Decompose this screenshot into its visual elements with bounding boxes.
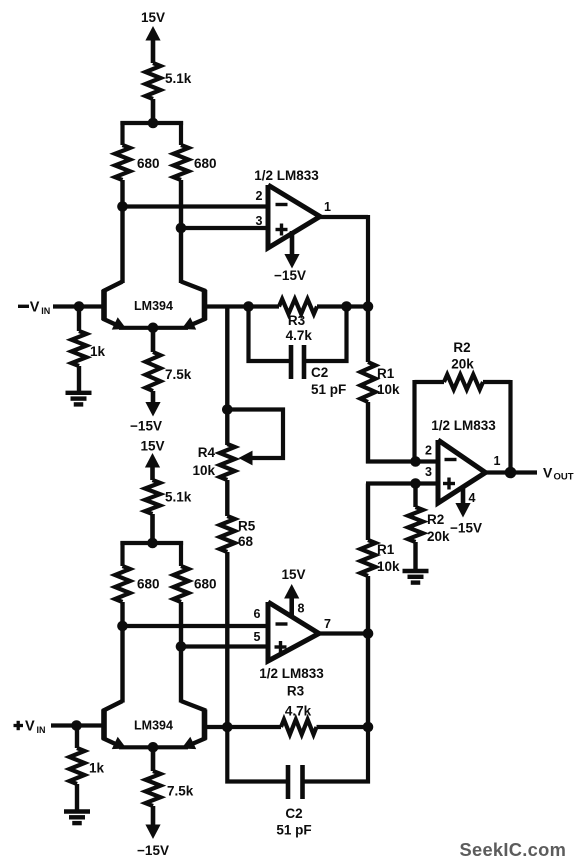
label 680 (top-right)	[194, 156, 217, 171]
transistor pair LM394 (bottom) bases	[104, 710, 205, 740]
svg-text:1: 1	[494, 454, 501, 468]
label R3 (bottom)	[287, 684, 305, 699]
LM394 bot right collector	[181, 701, 206, 711]
wire U2 output	[317, 631, 368, 635]
label 7.5k (bottom)	[167, 784, 194, 799]
wire C2 left branch (top)	[249, 307, 290, 362]
wire R5 to bottom base row	[225, 552, 229, 727]
label Vout	[543, 465, 574, 483]
power +15V arrow (U2 pin8)	[284, 584, 299, 599]
wire C2 left branch (bottom)	[227, 727, 286, 782]
resistor R2 (to ground)	[408, 484, 423, 571]
svg-text:R3: R3	[287, 684, 305, 699]
svg-text:680: 680	[194, 577, 217, 592]
label -15V (U3)	[450, 521, 482, 536]
pin 4 stem (U3)	[461, 486, 466, 506]
svg-text:5.1k: 5.1k	[165, 490, 192, 505]
wire +Vin input	[51, 723, 104, 727]
svg-text:10k: 10k	[377, 559, 400, 574]
power -15V arrow (top 7.5k)	[145, 402, 160, 417]
svg-text:C2: C2	[285, 806, 302, 821]
node: top rail junction	[148, 118, 159, 129]
node: C2 left tap (top)	[243, 301, 254, 312]
LM394 top right emitter	[182, 317, 207, 329]
pin 2 label (U1)	[256, 189, 263, 203]
pin 5 label (U2)	[254, 630, 261, 644]
node: C2 right tap (top)	[341, 301, 352, 312]
wire to U1 pin 3	[181, 226, 268, 230]
wire 5.1k-bottom to rail	[150, 514, 155, 545]
node: R4 bypass junction	[222, 404, 233, 415]
svg-text:V: V	[30, 300, 40, 316]
svg-text:−15V: −15V	[130, 419, 162, 434]
power -15V arrow (U3 pin4)	[455, 503, 470, 518]
LM394 bot left emitter	[103, 737, 127, 749]
power -15V arrow (U1 pin4)	[284, 254, 299, 269]
op-amp U1 1/2 LM833 (top)	[268, 185, 320, 248]
svg-text:V: V	[25, 719, 35, 735]
pin 4 label (U3)	[469, 491, 476, 505]
pin 1 label (U3)	[494, 454, 501, 468]
wire R4 to R5	[225, 480, 229, 516]
resistor R3 (bottom)	[281, 720, 317, 735]
svg-text:−15V: −15V	[450, 521, 482, 536]
svg-text:−15V: −15V	[274, 268, 306, 283]
svg-text:15V: 15V	[140, 439, 164, 454]
svg-text:8: 8	[298, 602, 305, 616]
node: pin3 tap	[176, 223, 187, 234]
pin 8 label (U2)	[298, 602, 305, 616]
svg-text:R1: R1	[377, 366, 395, 381]
label 20k (R2 ground)	[427, 529, 450, 544]
node: bottom R3 right junction	[363, 722, 374, 733]
label -15V (bottom)	[137, 843, 169, 858]
node: bottom base junction	[222, 722, 233, 733]
svg-text:OUT: OUT	[554, 472, 574, 483]
resistor 5.1k (bottom)	[145, 480, 160, 514]
svg-text:C2: C2	[311, 365, 328, 380]
svg-text:1/2 LM833: 1/2 LM833	[431, 418, 496, 433]
label 10k (R1 lower)	[377, 559, 400, 574]
wire LM394 bot base to R3 row	[205, 725, 282, 729]
label R1 (upper)	[377, 366, 395, 381]
power +15V label (mid)	[140, 439, 164, 454]
label -15V (top 7.5k)	[130, 419, 162, 434]
label 51 pF (bottom)	[276, 823, 311, 838]
wire bottom rail	[120, 541, 183, 566]
label 20k (R2 feedback)	[451, 357, 474, 372]
resistor 680 (bot-left)	[115, 566, 130, 602]
pin 1 label (U1)	[324, 200, 331, 214]
LM394 bot right emitter	[182, 737, 207, 749]
wire R4 bypass loop	[227, 410, 283, 459]
resistor R1 (lower)	[361, 484, 376, 636]
svg-text:LM394: LM394	[134, 299, 173, 313]
node: U3 pin3 junction	[410, 478, 421, 489]
svg-text:4: 4	[469, 491, 476, 505]
svg-text:1k: 1k	[90, 344, 106, 359]
label 680 (top-left)	[137, 156, 160, 171]
power -15V arrow (bottom 7.5k)	[145, 825, 160, 840]
label LM394 (top)	[134, 299, 173, 313]
LM394 bot emitter wire	[119, 745, 188, 749]
wire U1 output	[318, 215, 368, 307]
LM394 top emitter wire	[119, 326, 188, 330]
svg-text:4.7k: 4.7k	[285, 704, 312, 719]
wire to U3 pin 2	[366, 459, 438, 463]
svg-text:7.5k: 7.5k	[165, 367, 192, 382]
svg-text:20k: 20k	[451, 357, 474, 372]
svg-text:680: 680	[137, 156, 160, 171]
label 680 (bot-left)	[137, 577, 160, 592]
power +15V arrow (mid)	[145, 453, 160, 480]
svg-text:10k: 10k	[192, 463, 215, 478]
svg-text:−15V: −15V	[137, 843, 169, 858]
node: Vout junction	[505, 467, 517, 479]
wire to U2 pin 6	[123, 624, 269, 628]
label 4.7k (bottom)	[285, 704, 312, 719]
svg-text:R3: R3	[288, 313, 306, 328]
resistor 1k (bottom)	[70, 726, 85, 811]
label 68 (R5)	[238, 534, 254, 549]
svg-text:10k: 10k	[377, 382, 400, 397]
label C2 (top)	[311, 365, 328, 380]
svg-text:R5: R5	[238, 519, 256, 534]
capacitor C2 (top)	[291, 345, 304, 379]
label -15V (U1)	[274, 268, 306, 283]
label 1/2 LM833 (U1)	[254, 168, 319, 183]
svg-text:5: 5	[254, 630, 261, 644]
label 4.7k (top)	[286, 328, 313, 343]
potentiometer R4	[220, 444, 235, 480]
pin 7 label (U2)	[324, 617, 331, 631]
node: emitter junction (top)	[148, 323, 159, 334]
label 7.5k (top)	[165, 367, 192, 382]
pin 3 label (U1)	[256, 214, 263, 228]
node: U2 output junction	[363, 628, 374, 639]
capacitor C2 (bottom)	[288, 765, 303, 799]
pin 3 label (U3)	[425, 465, 432, 479]
wire C2 right branch (bottom)	[305, 727, 369, 782]
svg-text:6: 6	[254, 607, 261, 621]
potentiometer R4 wiper arrow	[239, 451, 253, 466]
pin 6 label (U2)	[254, 607, 261, 621]
label R3 (top)	[288, 313, 306, 328]
transistor pair LM394 (top) bases	[104, 290, 205, 320]
node: emitter junction (bot)	[148, 742, 159, 753]
svg-text:51 pF: 51 pF	[311, 382, 346, 397]
wire C2 right branch (top)	[306, 307, 347, 362]
wire to U3 pin 3	[366, 481, 438, 485]
power +15V label (top)	[141, 10, 165, 25]
label 1/2 LM833 (U3)	[431, 418, 496, 433]
svg-text:IN: IN	[37, 725, 46, 735]
wire to U1 pin 2	[123, 204, 269, 208]
pin 8 stem (U2)	[289, 597, 294, 617]
label 10k (R4)	[192, 463, 215, 478]
svg-text:15V: 15V	[141, 10, 165, 25]
label 680 (bot-right)	[194, 577, 217, 592]
LM394 top right collector	[181, 282, 206, 292]
wire 680R to collector	[179, 180, 183, 283]
node: pin2 tap	[117, 201, 128, 212]
svg-text:20k: 20k	[427, 529, 450, 544]
op-amp U2 1/2 LM833 (bottom)	[268, 602, 319, 661]
svg-text:2: 2	[256, 189, 263, 203]
node: pin5 tap	[176, 641, 187, 652]
pin 4 stem (U1)	[290, 231, 295, 258]
wire 680L to collector (bot)	[120, 602, 124, 703]
SeekIC.com watermark	[460, 839, 567, 860]
label R4	[198, 445, 216, 460]
svg-text:7: 7	[324, 617, 331, 631]
svg-text:V: V	[543, 465, 553, 481]
node: U3 pin2 junction	[410, 456, 421, 467]
wire to U2 pin 5	[181, 644, 268, 648]
LM394 top left collector	[103, 282, 123, 292]
svg-text:1k: 1k	[89, 761, 105, 776]
svg-text:R1: R1	[377, 542, 395, 557]
node: pin6 tap	[117, 621, 128, 632]
label 1k (top)	[90, 344, 106, 359]
pin 2 label (U3)	[425, 444, 432, 458]
label 10k (R1 upper)	[377, 382, 400, 397]
resistor R2 (feedback)	[415, 375, 511, 390]
power +15V arrow (top)	[145, 26, 160, 63]
label 1/2 LM833 (U2)	[259, 666, 324, 681]
svg-text:5.1k: 5.1k	[165, 71, 192, 86]
svg-text:51 pF: 51 pF	[276, 823, 311, 838]
label +Vin	[14, 719, 46, 736]
resistor 5.1k (top)	[146, 63, 161, 99]
wire R3-bottom to output node	[317, 725, 369, 729]
svg-text:1/2 LM833: 1/2 LM833	[259, 666, 324, 681]
resistor R3 (top)	[279, 299, 317, 314]
node: bottom rail junction	[147, 538, 158, 549]
label C2 (bottom)	[285, 806, 302, 821]
ground (top-left)	[66, 393, 92, 405]
resistor R1 (upper)	[361, 307, 376, 464]
resistor 680 (top-right)	[174, 145, 189, 180]
wire base column upper	[225, 305, 229, 446]
wire R2 feedback right leg	[508, 380, 512, 474]
svg-text:68: 68	[238, 534, 254, 549]
resistor 7.5k (bottom)	[146, 747, 161, 826]
wire R2 feedback left leg	[412, 380, 416, 463]
svg-text:R4: R4	[198, 445, 216, 460]
wire U3 output	[484, 470, 538, 474]
label 1k (bottom)	[89, 761, 105, 776]
resistor 680 (bot-right)	[174, 566, 189, 602]
svg-text:2: 2	[425, 444, 432, 458]
op-amp U3 1/2 LM833 (output)	[438, 440, 486, 503]
node: +Vin junction	[71, 720, 82, 731]
resistor 7.5k (top)	[146, 328, 161, 406]
svg-text:IN: IN	[41, 306, 50, 316]
LM394 bot left collector	[103, 701, 123, 711]
node: U1 output node	[363, 301, 374, 312]
resistor 1k (top)	[72, 307, 87, 392]
svg-text:680: 680	[137, 577, 160, 592]
wire 5.1k to rail	[151, 99, 156, 125]
wire R3 to output node (top)	[317, 304, 370, 308]
LM394 top left emitter	[103, 317, 127, 329]
wire 680R to collector (bot)	[179, 602, 183, 703]
svg-text:3: 3	[425, 465, 432, 479]
label R5	[238, 519, 256, 534]
resistor 680 (top-left)	[115, 145, 130, 180]
label 51 pF (top)	[311, 382, 346, 397]
label LM394 (bottom)	[134, 719, 173, 733]
svg-text:R2: R2	[453, 340, 470, 355]
svg-text:7.5k: 7.5k	[167, 784, 194, 799]
resistor R5	[220, 516, 235, 552]
svg-text:1/2 LM833: 1/2 LM833	[254, 168, 319, 183]
label R1 (lower)	[377, 542, 395, 557]
svg-text:4.7k: 4.7k	[286, 328, 313, 343]
label 5.1k (bottom)	[165, 490, 192, 505]
svg-text:R2: R2	[427, 512, 444, 527]
ground (below R2)	[403, 571, 429, 583]
svg-text:680: 680	[194, 156, 217, 171]
wire top rail	[120, 121, 183, 145]
label 15V (U2)	[281, 567, 305, 582]
svg-text:3: 3	[256, 214, 263, 228]
svg-text:SeekIC.com: SeekIC.com	[460, 839, 567, 860]
svg-text:15V: 15V	[281, 567, 305, 582]
node: -Vin junction	[74, 301, 85, 312]
label 5.1k (top)	[165, 71, 192, 86]
wire 680L to collector	[120, 180, 124, 283]
wire LM394 top base to R3 row	[205, 304, 280, 308]
wire -Vin input	[53, 304, 104, 308]
ground (bottom-left)	[64, 812, 90, 824]
label -Vin	[18, 300, 50, 317]
label R2 (feedback)	[453, 340, 470, 355]
wire U2 output node to bottom R3 row	[366, 634, 370, 728]
label R2 (ground)	[427, 512, 444, 527]
svg-text:LM394: LM394	[134, 719, 173, 733]
svg-text:1: 1	[324, 200, 331, 214]
